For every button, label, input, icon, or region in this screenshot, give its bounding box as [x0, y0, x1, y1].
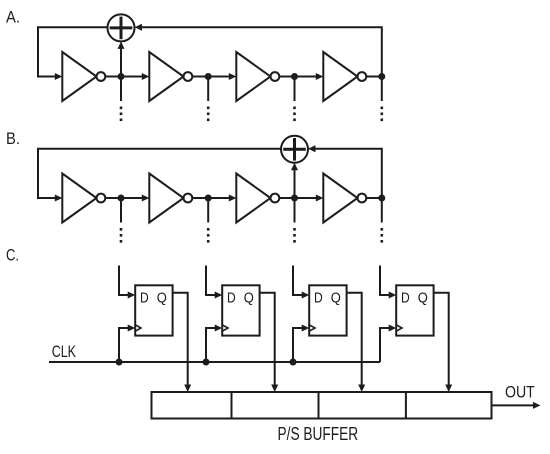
svg-text:Q: Q [331, 289, 341, 306]
svg-text:C.: C. [6, 246, 19, 265]
svg-text:D: D [314, 289, 323, 306]
svg-text:D: D [401, 289, 410, 306]
svg-text:Q: Q [157, 289, 167, 306]
svg-text:P/S BUFFER: P/S BUFFER [278, 424, 359, 444]
svg-text:CLK: CLK [52, 342, 77, 361]
svg-text:D: D [140, 289, 149, 306]
svg-text:Q: Q [418, 289, 428, 306]
svg-text:Q: Q [244, 289, 254, 306]
svg-text:A.: A. [6, 7, 20, 26]
svg-text:OUT: OUT [505, 383, 535, 402]
svg-text:B.: B. [6, 129, 20, 148]
svg-text:D: D [227, 289, 236, 306]
